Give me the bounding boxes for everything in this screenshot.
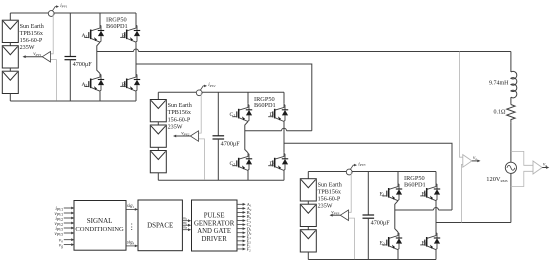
- wire : leg A mid: [97, 42, 100, 73]
- svg-text:235W: 235W: [20, 45, 35, 51]
- wire : leg F emitter lead: [435, 250, 437, 260]
- wire : leg C emitter lead: [247, 171, 249, 181]
- wire : leg A emitter lead: [99, 91, 101, 101]
- wire : m1 arrow: [182, 220, 189, 222]
- wire : sig1 arrow: [126, 208, 136, 210]
- wire : input vo arrow: [64, 239, 72, 241]
- wire : cell 1 output to inductor (top net): [139, 51, 511, 53]
- svg-text:sig8: sig8: [127, 241, 135, 246]
- current sensor iPV3: [346, 169, 352, 175]
- svg-text:F2: F2: [247, 247, 252, 253]
- wire : vg output arrow: [542, 167, 547, 169]
- wire: [510, 122, 512, 162]
- svg-text:⋮: ⋮: [128, 222, 136, 231]
- wire : input vPV3 arrow: [64, 232, 72, 234]
- wire : PV3 string top lead: [307, 172, 309, 179]
- capacitor C2 4700uF: [217, 92, 219, 136]
- solar panel PV3.1 (Sun Earth TPB156x): [300, 179, 316, 201]
- wire : input iPV1 arrow: [64, 207, 72, 209]
- wire : PV2 string top lead: [157, 92, 159, 99]
- transistor F1: [427, 183, 436, 189]
- transistor B1: [127, 25, 136, 31]
- wire : leg C collector lead: [247, 92, 249, 104]
- svg-text:TPB156x: TPB156x: [20, 31, 43, 37]
- solar panel PV1.2 (Sun Earth TPB156x): [2, 46, 18, 68]
- wire : DC- bus cell 2: [158, 179, 284, 181]
- wire : leg F collector lead: [435, 172, 437, 184]
- capacitor C3 4700uF: [367, 172, 369, 216]
- wire : gate signal D1 arrow: [237, 228, 244, 230]
- wire : gate signal A2 arrow: [237, 207, 244, 209]
- wire : leg E emitter lead: [397, 250, 399, 260]
- wire : input iPV3 arrow: [64, 227, 72, 229]
- AC source : grid 120Vrms: [505, 162, 516, 173]
- wire: [510, 173, 512, 222]
- wire : vPV1 output arrow: [25, 56, 43, 58]
- svg-text:4700μF: 4700μF: [73, 61, 93, 68]
- wire : leg B emitter lead: [135, 91, 137, 101]
- wire : input vPV1 arrow: [64, 212, 72, 214]
- wire : input iPV2 arrow: [64, 217, 72, 219]
- wire : input vg arrow: [64, 244, 72, 246]
- wire: [9, 68, 11, 71]
- wire : m3 arrow: [182, 229, 189, 231]
- wire : leg A collector lead: [99, 13, 101, 25]
- svg-text:DRIVER: DRIVER: [201, 236, 227, 243]
- capacitor C1 4700uF: [69, 13, 71, 57]
- svg-text:GENERATOR: GENERATOR: [194, 220, 235, 227]
- op-amp : voltage sensor vPV1: [42, 52, 50, 63]
- wire : PV2 string bottom lead: [157, 173, 159, 181]
- wire : gate signal B2 arrow: [237, 215, 244, 217]
- svg-text:Sun Earth: Sun Earth: [20, 24, 44, 30]
- transistor B2: [127, 74, 136, 80]
- svg-text:TPB156x: TPB156x: [318, 189, 341, 195]
- svg-text:CONDITIONING: CONDITIONING: [75, 226, 124, 233]
- wire : gate signal F2 arrow: [237, 248, 244, 250]
- transistor C2: [239, 153, 248, 159]
- solar panel PV1.3 (Sun Earth TPB156x): [2, 71, 18, 93]
- resistor R 0.1ohm: [507, 105, 515, 123]
- svg-text:156-60-P: 156-60-P: [318, 197, 341, 203]
- wire : cell 2 lower output (leg D): [284, 143, 452, 210]
- svg-text:B60PD1: B60PD1: [106, 23, 128, 30]
- wire : DC- bus cell 3: [308, 259, 436, 261]
- wire : gate signal C1 arrow: [237, 220, 244, 222]
- solar panel PV2.1 (Sun Earth TPB156x): [150, 100, 166, 122]
- transistor E2: [389, 232, 398, 238]
- wire : vo output arrow: [472, 160, 478, 162]
- op-amp : grid voltage sensor vg: [533, 161, 542, 174]
- wire : cell 1 output (left leg) with hop: [97, 51, 134, 53]
- wire : cell 2 upper output joins: [287, 130, 312, 132]
- wire : m2 arrow: [182, 224, 189, 226]
- transistor A1 (IRGP50B60PD1): [91, 25, 100, 31]
- wire : vPV3 output arrow: [332, 214, 341, 216]
- wire : gate signal B1 arrow: [237, 211, 244, 213]
- wire : top net corner down: [510, 52, 512, 73]
- wire : gate signal E2 arrow: [237, 240, 244, 242]
- wire : gate signal F1 arrow: [237, 244, 244, 246]
- wire : PV3 string bottom lead: [307, 252, 309, 260]
- solar panel PV2.3 (Sun Earth TPB156x): [150, 151, 166, 173]
- wire : DC+ bus cell 1: [10, 12, 136, 14]
- svg-text:DSPACE: DSPACE: [147, 222, 173, 230]
- svg-text:235W: 235W: [168, 124, 183, 130]
- transistor F2: [427, 232, 436, 238]
- wire : input vPV2 arrow: [64, 222, 72, 224]
- transistor D1: [275, 104, 284, 110]
- op-amp : voltage sensor vPV2: [190, 131, 198, 142]
- wire : leg D collector lead: [283, 92, 285, 104]
- svg-text:B60PD1: B60PD1: [254, 102, 276, 109]
- wire : PV1 string top lead: [9, 13, 11, 20]
- wire : vPV1 sense taps: [51, 13, 54, 53]
- wire : sig8 arrow: [126, 245, 136, 247]
- op-amp : output voltage sensor vo: [463, 155, 472, 168]
- wire : leg D mid: [283, 122, 285, 153]
- wire : DC- bus cell 1: [10, 100, 136, 102]
- solar panel PV3.3 (Sun Earth TPB156x): [300, 230, 316, 252]
- solar panel PV3.2 (Sun Earth TPB156x): [300, 204, 316, 226]
- inductor L 9.74mH: [511, 71, 517, 97]
- wire : vPV3 sense taps: [349, 172, 352, 212]
- transistor C1 (IRGP50B60PD1): [239, 104, 248, 110]
- wire : DC+ bus cell 3: [308, 171, 436, 173]
- wire : leg B collector lead: [135, 13, 137, 25]
- wire : cell 3 upper output joins: [439, 209, 453, 211]
- wire: [307, 201, 309, 204]
- wire : cell 3 lower output to grid return (bottom net): [436, 222, 511, 224]
- svg-text:TPB156x: TPB156x: [168, 110, 191, 116]
- block : SIGNAL CONDITIONING: [74, 201, 126, 251]
- wire : leg D emitter lead: [283, 171, 285, 181]
- wire: [307, 227, 309, 230]
- wire : gate signal D2 arrow: [237, 232, 244, 234]
- wire : cell 3 output (left leg) with hop: [395, 209, 434, 211]
- svg-text:235W: 235W: [318, 204, 333, 210]
- op-amp : voltage sensor vPV3: [340, 210, 348, 221]
- svg-text:SIGNAL: SIGNAL: [87, 217, 113, 225]
- svg-text:AND GATE: AND GATE: [197, 228, 231, 235]
- wire : gate signal C2 arrow: [237, 224, 244, 226]
- wire : leg F mid: [435, 201, 437, 232]
- svg-text:PULSE: PULSE: [204, 213, 225, 220]
- solar panel PV2.2 (Sun Earth TPB156x): [150, 125, 166, 147]
- block : PULSE GENERATOR AND GATE DRIVER: [192, 200, 238, 251]
- svg-text:4700μF: 4700μF: [371, 220, 391, 227]
- svg-text:156-60-P: 156-60-P: [168, 117, 191, 123]
- wire : vg sense taps: [511, 151, 533, 165]
- transistor D2: [275, 153, 284, 159]
- svg-text:4700μF: 4700μF: [221, 141, 241, 148]
- wire: [9, 43, 11, 46]
- wire: [157, 122, 159, 125]
- wire : vo sense taps: [460, 52, 463, 158]
- svg-text:Sun Earth: Sun Earth: [318, 182, 342, 188]
- wire : leg C mid: [245, 122, 248, 153]
- svg-text:m3: m3: [183, 225, 188, 230]
- svg-text:9.74mH: 9.74mH: [489, 80, 509, 86]
- transistor E1 (IRGP50B60PD1): [389, 183, 398, 189]
- wire : cell 1 lower output (leg B): [136, 64, 312, 131]
- wire : leg E collector lead: [397, 172, 399, 184]
- wire : vPV2 output arrow: [175, 135, 190, 137]
- wire : PV1 string bottom lead: [9, 94, 11, 102]
- svg-text:B60PD1: B60PD1: [404, 181, 426, 188]
- current sensor iPV1: [48, 11, 54, 17]
- svg-text:0.1Ω: 0.1Ω: [494, 110, 507, 116]
- wire: [510, 97, 512, 104]
- svg-text:156-60-P: 156-60-P: [20, 38, 43, 44]
- solar panel PV1.1 (Sun Earth TPB156x): [2, 20, 18, 42]
- block : DSPACE: [138, 200, 182, 251]
- wire : vPV2 sense taps: [199, 93, 202, 133]
- svg-text:sig1: sig1: [127, 204, 135, 209]
- wire : cell 2 output (left leg) with hop: [245, 130, 282, 132]
- wire : leg E mid: [395, 201, 398, 232]
- wire: [157, 147, 159, 150]
- wire : leg B mid: [135, 42, 137, 73]
- transistor A2: [91, 74, 100, 80]
- current sensor iPV2: [196, 90, 202, 96]
- svg-text:Sun Earth: Sun Earth: [168, 103, 192, 109]
- wire : gate signal E1 arrow: [237, 236, 244, 238]
- wire : DC+ bus cell 2: [158, 91, 284, 93]
- wire : gate signal A1 arrow: [237, 203, 244, 205]
